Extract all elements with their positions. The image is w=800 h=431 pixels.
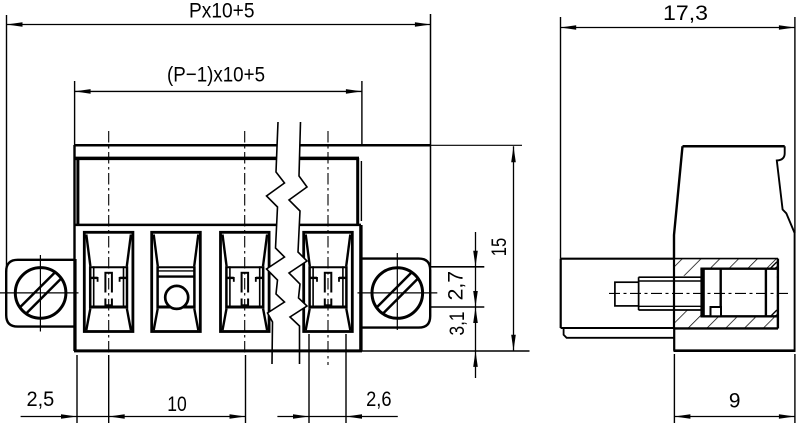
dimension (P-1)x10+5: [75, 63, 362, 146]
upper housing body: [74, 145, 431, 351]
svg-text:Px10+5: Px10+5: [189, 0, 255, 23]
screw head pocket: [700, 269, 777, 317]
dimension 2,5 and 10: [21, 355, 246, 423]
dimension 17,3: [560, 1, 795, 259]
svg-text:10: 10: [167, 392, 187, 416]
svg-text:(P−1)x10+5: (P−1)x10+5: [167, 63, 265, 87]
dimension 9: [674, 354, 795, 423]
screw shank: [609, 277, 791, 310]
centerline slot 3: [244, 131, 246, 355]
terminal slot 2: [152, 232, 201, 331]
left flange screw: [0, 255, 79, 332]
terminal slot 3: [221, 232, 270, 331]
dimension 2,7 and 3,1: [430, 232, 484, 378]
break gap white fill: [267, 122, 308, 348]
svg-text:3,1: 3,1: [445, 312, 469, 336]
svg-text:9: 9: [729, 389, 741, 413]
dimension 15: [362, 145, 530, 351]
centerline slot 1: [108, 131, 110, 355]
svg-text:2,5: 2,5: [27, 387, 55, 411]
terminal slot 4: [304, 232, 353, 331]
terminal slot 1: [84, 232, 133, 331]
svg-text:15: 15: [487, 238, 511, 257]
right flange screw: [358, 253, 438, 330]
break line right: [289, 122, 307, 364]
housing outline (side): [674, 146, 796, 350]
dimension Px10+5: [7, 0, 431, 272]
left flange: [6, 260, 75, 327]
svg-text:2,6: 2,6: [366, 387, 391, 411]
svg-text:2,7: 2,7: [444, 271, 468, 300]
svg-text:17,3: 17,3: [663, 1, 708, 25]
break line left: [267, 122, 285, 364]
centerline slot 4: [327, 131, 329, 365]
hatched screw block (section): [674, 259, 778, 329]
dimension 2,6: [277, 334, 397, 423]
right flange: [361, 259, 430, 328]
side flange: [561, 259, 674, 338]
